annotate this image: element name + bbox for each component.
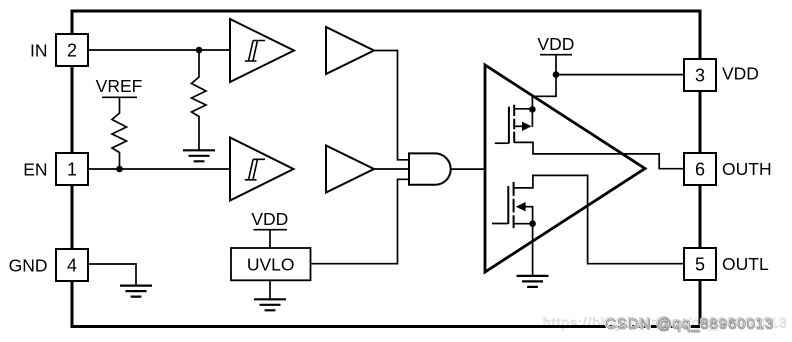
svg-text:VDD: VDD (251, 209, 288, 229)
svg-text:5: 5 (695, 254, 705, 274)
svg-text:CSDN @qq_88960013: CSDN @qq_88960013 (606, 316, 775, 333)
svg-text:IN: IN (30, 41, 48, 61)
svg-text:3: 3 (695, 65, 705, 85)
svg-text:2: 2 (67, 40, 77, 60)
svg-text:6: 6 (695, 159, 705, 179)
svg-text:OUTL: OUTL (722, 254, 769, 274)
svg-text:4: 4 (67, 255, 77, 275)
svg-text:EN: EN (23, 160, 47, 180)
svg-text:VDD: VDD (537, 34, 574, 54)
svg-text:UVLO: UVLO (247, 255, 295, 275)
svg-text:OUTH: OUTH (722, 159, 772, 179)
svg-text:1: 1 (67, 159, 77, 179)
svg-text:VREF: VREF (96, 76, 143, 96)
svg-text:GND: GND (9, 256, 48, 276)
svg-text:VDD: VDD (722, 64, 759, 84)
